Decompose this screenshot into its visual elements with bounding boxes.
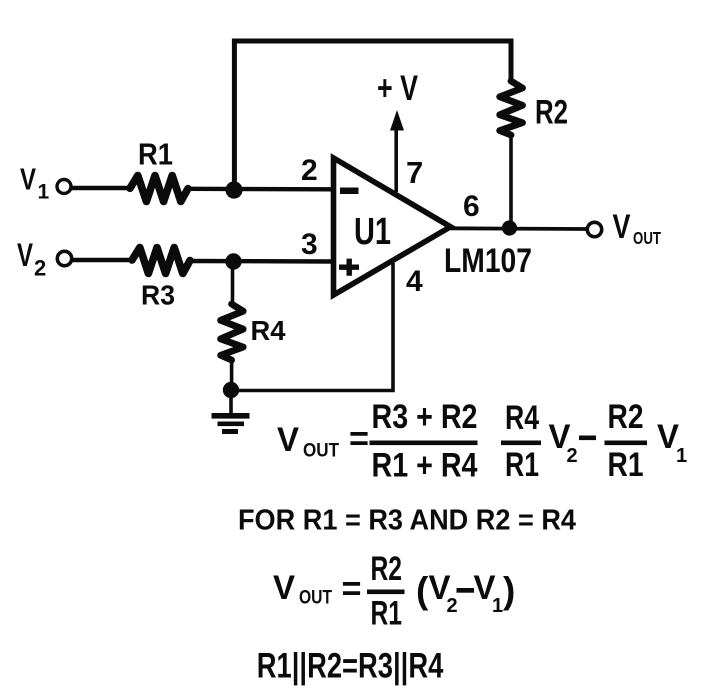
formula 3: VOUT = R2/R1 (V2-V1) — [273, 550, 515, 633]
label V2 — [17, 237, 46, 281]
svg-text:V: V — [277, 421, 299, 459]
svg-text:R4: R4 — [505, 399, 539, 437]
resistor R1 — [130, 176, 188, 202]
svg-text:2: 2 — [447, 595, 458, 617]
svg-text:R4: R4 — [251, 315, 286, 346]
svg-text:V: V — [273, 569, 295, 607]
junction node B (non-inverting input / R4) — [225, 253, 241, 269]
svg-text:2: 2 — [567, 445, 578, 467]
wire node B down to R4 — [231, 262, 235, 306]
junction node A (inverting input / feedback) — [225, 181, 242, 198]
svg-text:V: V — [17, 237, 33, 273]
svg-text:R1: R1 — [138, 137, 173, 172]
node V1 input terminal — [57, 180, 71, 194]
wire V2 terminal to R3 — [72, 258, 133, 262]
svg-text:+ V: + V — [377, 69, 418, 108]
svg-text:U1: U1 — [354, 211, 391, 253]
junction node OUT (R2 / output) — [502, 220, 517, 235]
svg-text:R3 + R2: R3 + R2 — [372, 398, 478, 436]
svg-text:OUT: OUT — [299, 588, 332, 609]
junction node C (ground / pin 4) — [223, 382, 239, 398]
label V1 — [20, 162, 50, 204]
svg-text:2: 2 — [301, 154, 318, 187]
svg-text:R2: R2 — [535, 94, 568, 132]
resistor R3 — [132, 248, 190, 274]
wire R3 to op-amp pin 3 — [190, 259, 333, 264]
svg-text:4: 4 — [406, 265, 423, 298]
svg-text:R1: R1 — [608, 446, 644, 484]
svg-text:R2: R2 — [371, 550, 403, 588]
svg-text:3: 3 — [301, 228, 318, 261]
svg-text:=: = — [349, 420, 369, 458]
svg-text:1: 1 — [492, 595, 503, 617]
+V supply arrow — [390, 110, 404, 192]
op-amp plus sign — [339, 259, 359, 276]
svg-text:R1: R1 — [371, 595, 403, 633]
node V2 input terminal — [57, 251, 71, 265]
svg-text:V: V — [613, 208, 631, 246]
svg-text:OUT: OUT — [633, 228, 661, 248]
op-amp minus sign — [340, 188, 359, 195]
label VOUT — [613, 208, 662, 248]
svg-text:6: 6 — [463, 190, 480, 223]
svg-text:2: 2 — [34, 256, 46, 281]
node Vout terminal — [587, 222, 601, 236]
svg-text:R1 + R4: R1 + R4 — [372, 446, 478, 484]
svg-text:OUT: OUT — [303, 441, 339, 462]
ground — [212, 390, 250, 434]
wire op-amp output to Vout terminal — [449, 226, 588, 230]
wire R1 to op-amp pin 2 — [188, 187, 333, 192]
resistor R4 — [221, 304, 244, 360]
svg-text:=: = — [342, 570, 362, 608]
svg-text:R1||R2=R3||R4: R1||R2=R3||R4 — [257, 646, 444, 685]
op-amp U1 — [334, 158, 451, 295]
wire node C to pin 4 riser — [232, 263, 394, 391]
svg-text:R2: R2 — [608, 398, 644, 436]
svg-text:V: V — [20, 162, 36, 197]
svg-text:1: 1 — [676, 445, 687, 467]
svg-text:R3: R3 — [141, 280, 175, 311]
svg-text:7: 7 — [406, 155, 423, 190]
formula 1: VOUT = (R3+R2)/(R1+R4) x (R4/R1) V2 - (R2/R1) V1 — [277, 398, 687, 484]
wire feedback loop: node A up, across top, down to R2 — [234, 41, 511, 189]
svg-text:1: 1 — [38, 181, 50, 204]
resistor R2 — [500, 81, 523, 135]
wire V1 terminal to R1 — [71, 186, 131, 190]
svg-text:R1: R1 — [505, 446, 539, 484]
svg-text:): ) — [503, 570, 515, 611]
svg-text:LM107: LM107 — [444, 242, 532, 280]
wire R4 to ground node — [230, 359, 234, 390]
wire R2 to output node — [509, 135, 513, 228]
svg-text:FOR R1 = R3 AND R2 = R4: FOR R1 = R3 AND R2 = R4 — [238, 504, 576, 536]
svg-text:(: ( — [416, 570, 429, 611]
